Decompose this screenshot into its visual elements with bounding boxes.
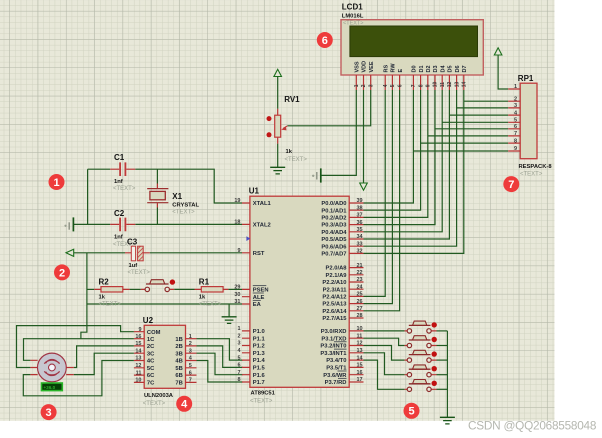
svg-text:39: 39 (357, 198, 363, 204)
svg-text:9: 9 (426, 84, 432, 87)
svg-text:D3: D3 (433, 65, 439, 72)
svg-text:P0.0/AD0: P0.0/AD0 (321, 201, 346, 207)
power terminal (up arrow) near RP1 (494, 48, 502, 55)
wire LCD VSS down-left to power bar (321, 90, 357, 175)
default terminal (left arrow) at RST row (66, 249, 74, 256)
wire RV1 bottom to ground (277, 144, 279, 168)
svg-text:5: 5 (408, 406, 414, 418)
wire vertical net C3row-R2-EA down to 1C row (81, 253, 87, 339)
svg-text:P0.6/AD6: P0.6/AD6 (321, 244, 347, 250)
svg-text:7: 7 (411, 84, 417, 87)
annotation circle 2 (54, 264, 70, 280)
svg-text:37: 37 (357, 213, 363, 219)
svg-text:RESPACK-8: RESPACK-8 (519, 164, 553, 170)
svg-text:1uf: 1uf (129, 263, 138, 269)
svg-text:3C: 3C (147, 351, 155, 357)
default terminal (down arrow) below LCD VDD (360, 183, 368, 190)
svg-text:<TEXT>: <TEXT> (113, 186, 136, 192)
annotation circle 6 (317, 32, 333, 48)
svg-text:16: 16 (135, 334, 141, 340)
svg-text:P1.2: P1.2 (253, 344, 265, 350)
wire C1 to U1 XTAL1 pin19 (135, 169, 242, 203)
svg-text:2: 2 (361, 84, 367, 87)
push button 2 (405, 336, 437, 348)
svg-text:9: 9 (237, 248, 240, 254)
svg-text:D5: D5 (448, 65, 454, 72)
svg-text:11: 11 (136, 370, 142, 376)
wire U2 COM loop to motor centre-left (17, 326, 134, 368)
svg-text:4C: 4C (147, 359, 155, 365)
svg-text:RV1: RV1 (284, 95, 300, 104)
wire U1 P0.5 to LCD D5 column (364, 90, 450, 239)
svg-text:8: 8 (418, 84, 424, 87)
svg-text:10: 10 (357, 326, 363, 332)
svg-text:P2.0/A8: P2.0/A8 (326, 266, 348, 272)
wire button4 to common (437, 374, 448, 376)
svg-text:P1.1: P1.1 (253, 336, 266, 342)
svg-text:3: 3 (237, 341, 240, 347)
svg-text:D7: D7 (462, 65, 468, 72)
resistor R2 (94, 287, 129, 292)
wire U1 P2.4 to LCD RS (364, 90, 386, 296)
wire long EA row (87, 303, 242, 305)
svg-text:1k: 1k (99, 295, 106, 301)
svg-text:6B: 6B (175, 373, 182, 379)
wire button to R1 (174, 288, 194, 290)
svg-text:34: 34 (357, 234, 364, 240)
svg-text:5: 5 (189, 363, 192, 369)
svg-text:36: 36 (357, 220, 363, 226)
stepper motor (30, 353, 73, 382)
svg-text:2C: 2C (147, 344, 155, 350)
wire to R2 left (87, 288, 94, 290)
wire R1 to U1 PSEN pin29 (228, 288, 242, 290)
wire U2 1C row to motor upper-left (24, 339, 134, 361)
wire C1 row + link C1-C2 (88, 169, 111, 224)
svg-text:9: 9 (514, 146, 517, 152)
resistor pack RP1 RESPACK-8 (520, 83, 537, 159)
svg-text:P0.1/AD1: P0.1/AD1 (321, 208, 347, 214)
svg-text:38: 38 (357, 205, 363, 211)
svg-text:ALE: ALE (253, 295, 265, 301)
svg-text:<TEXT>: <TEXT> (128, 270, 151, 276)
LCD pin stubs (356, 75, 464, 90)
svg-text:8: 8 (514, 138, 517, 144)
wire power bar to C2 (73, 223, 110, 225)
svg-text:VDD: VDD (362, 61, 368, 73)
svg-text:6: 6 (237, 363, 240, 369)
svg-text:3: 3 (514, 103, 517, 109)
svg-text:35: 35 (357, 227, 363, 233)
wire U1 P0.2 to LCD D2 column (364, 90, 428, 217)
wire U1 P0.0 to LCD D0 column (364, 90, 414, 203)
svg-text:1: 1 (53, 177, 59, 189)
svg-text:16: 16 (357, 370, 363, 376)
svg-text:3: 3 (46, 407, 52, 419)
wire crystal top to C1 row (156, 169, 158, 183)
wire U1 P3.4 to button5 (364, 360, 405, 389)
svg-text:P1.4: P1.4 (253, 358, 266, 364)
svg-text:27: 27 (357, 306, 363, 312)
svg-text:14: 14 (357, 355, 364, 361)
svg-text:<TEXT>: <TEXT> (520, 172, 543, 178)
svg-text:23: 23 (357, 277, 363, 283)
wire RP1 pin3 to D6 column (457, 107, 509, 109)
svg-text:X1: X1 (172, 192, 182, 201)
svg-text:26: 26 (357, 299, 363, 305)
wire U1 P3.3 to button4 (364, 353, 405, 375)
wire U1 P3.2 to button3 (364, 346, 405, 361)
svg-text:6: 6 (189, 370, 192, 376)
svg-text:33: 33 (357, 241, 363, 247)
svg-text:1B: 1B (175, 337, 182, 343)
svg-text:13: 13 (357, 348, 363, 354)
wire U1 P0.1 to LCD D1 column (364, 90, 421, 210)
svg-text:6C: 6C (147, 373, 155, 379)
svg-text:P3.1/TXD: P3.1/TXD (321, 336, 346, 342)
svg-text:R2: R2 (99, 278, 110, 287)
svg-text:2: 2 (514, 96, 517, 102)
svg-text:LCD1: LCD1 (342, 3, 363, 12)
wire RP1 pin9 to D0 column (413, 150, 508, 152)
wire U1 P3.1 to button2 (364, 338, 405, 345)
svg-text:<TEXT>: <TEXT> (250, 399, 273, 405)
svg-text:32: 32 (357, 249, 363, 255)
power terminal (up arrow) above RV1 (274, 69, 282, 76)
wire RP1 pin1 to power arrow (498, 56, 508, 90)
LCD display LCD1 LM016L (341, 20, 483, 75)
svg-text:P0.4/AD4: P0.4/AD4 (321, 230, 347, 236)
push button 3 (405, 350, 437, 362)
svg-text:5B: 5B (175, 366, 182, 372)
wire U2 3B to U1 P1.6 (197, 353, 243, 375)
wire button2 to common (437, 345, 448, 347)
annotation circle 4 (176, 396, 192, 412)
svg-text:17: 17 (357, 377, 363, 383)
svg-text:E: E (398, 69, 404, 73)
svg-text:12: 12 (135, 363, 141, 369)
svg-text:C1: C1 (114, 153, 125, 162)
svg-text:12: 12 (357, 341, 363, 347)
push button 4 (405, 365, 437, 377)
wire LCD VEE to RV1 wiper (288, 90, 371, 126)
svg-text:R1: R1 (199, 278, 210, 287)
svg-text:10: 10 (433, 82, 439, 88)
stepper motor angle readout (42, 383, 63, 391)
wire RP1 pin4 to D5 column (449, 114, 508, 116)
svg-text:<TEXT>: <TEXT> (99, 302, 122, 308)
svg-text:7: 7 (508, 179, 514, 191)
svg-text:3: 3 (189, 348, 192, 354)
svg-text:D6: D6 (455, 65, 461, 72)
svg-text:21: 21 (357, 263, 363, 269)
svg-text:11: 11 (440, 82, 446, 88)
wire U1 P3.0 to button1 (364, 330, 405, 332)
U1 left pin stubs (242, 203, 250, 382)
capacitor C1 (110, 162, 135, 176)
wire RP1 pin7 to D2 column (428, 135, 508, 137)
wire U1 P2.5 to LCD RW (364, 90, 393, 304)
svg-text:1nf: 1nf (114, 179, 123, 185)
svg-text:<TEXT>: <TEXT> (343, 21, 363, 27)
wire C2 to U1 XTAL2 pin18 (135, 223, 242, 225)
svg-text:5C: 5C (147, 366, 155, 372)
svg-text:12: 12 (447, 82, 453, 88)
svg-text:7C: 7C (147, 381, 155, 387)
ground below RV1 (270, 167, 285, 174)
svg-text:U2: U2 (143, 316, 154, 325)
svg-text:<TEXT>: <TEXT> (143, 401, 166, 407)
svg-text:D1: D1 (419, 65, 425, 72)
svg-text:6: 6 (322, 35, 328, 47)
driver U2 ULN2003A (144, 325, 185, 388)
svg-text:P1.3: P1.3 (253, 351, 266, 357)
U2 right pin stubs (186, 339, 197, 383)
U1 right pin stubs (349, 203, 363, 382)
svg-text:XTAL2: XTAL2 (253, 223, 271, 229)
svg-text:1: 1 (237, 326, 240, 332)
svg-text:1: 1 (354, 84, 360, 87)
svg-text:5: 5 (514, 118, 517, 124)
wire U2 4B to U1 P1.7 (197, 361, 243, 383)
power bar terminal at LCD VSS (320, 168, 322, 182)
reset push button (141, 279, 175, 291)
svg-text:1k: 1k (286, 149, 293, 155)
RP1 pin stubs (508, 89, 520, 151)
svg-text:P2.6/A14: P2.6/A14 (322, 309, 347, 315)
wire EA to ground stem (228, 304, 230, 317)
potentiometer RV1 (267, 109, 288, 144)
svg-text:15: 15 (135, 341, 141, 347)
svg-text:EA: EA (253, 302, 262, 308)
svg-text:P2.7/A15: P2.7/A15 (322, 316, 347, 322)
svg-text:18: 18 (234, 220, 240, 226)
svg-text:D0: D0 (412, 65, 418, 72)
wire U2 1B to U1 P1.4 (197, 339, 243, 360)
push button 5 (405, 380, 437, 392)
svg-text:4: 4 (181, 399, 188, 411)
svg-text:P2.5/A13: P2.5/A13 (322, 302, 347, 308)
svg-text:P1.0: P1.0 (253, 329, 265, 335)
wire U1 P2.6 to LCD E (364, 90, 400, 311)
annotation circle 3 (41, 404, 57, 420)
wire LCD VDD down to arrow terminal (363, 90, 365, 183)
svg-text:P3.5/T1: P3.5/T1 (326, 366, 347, 372)
svg-text:1nf: 1nf (114, 235, 123, 241)
wire U1 P0.7 to LCD D7 column (364, 90, 464, 253)
svg-text:14: 14 (135, 348, 142, 354)
svg-text:30: 30 (234, 292, 240, 298)
svg-text:P0.2/AD2: P0.2/AD2 (321, 216, 346, 222)
wire RP1 pin5 to D4 column (442, 121, 508, 123)
pin marker (blue) at U1 left edge (246, 236, 250, 241)
svg-text:LM016L: LM016L (342, 14, 364, 20)
svg-text:11: 11 (357, 333, 363, 339)
svg-text:P1.6: P1.6 (253, 373, 266, 379)
svg-text:C2: C2 (114, 209, 125, 218)
wire button3 to common (437, 359, 448, 361)
svg-text:P2.1/A9: P2.1/A9 (326, 273, 348, 279)
svg-text:29: 29 (234, 285, 240, 291)
capacitor C2 (110, 218, 135, 232)
svg-text:CSDN @QQ2068558048: CSDN @QQ2068558048 (468, 419, 597, 433)
U2 left pin stubs (134, 332, 144, 383)
svg-text:22: 22 (357, 270, 363, 276)
svg-text:7: 7 (189, 378, 192, 384)
power bar terminal at C2 row (72, 217, 74, 231)
svg-text:RW: RW (391, 63, 397, 73)
resistor R1 (195, 287, 229, 292)
ground at U1 EA (222, 317, 237, 324)
svg-text:6: 6 (397, 84, 403, 87)
svg-text:31: 31 (234, 299, 240, 305)
wire RP1 pin8 to D1 column (421, 142, 509, 144)
svg-text:XTAL1: XTAL1 (253, 201, 272, 207)
svg-text:CRYSTAL: CRYSTAL (172, 203, 199, 209)
svg-text:C3: C3 (127, 238, 138, 247)
wire U2 3C to motor lower-right (74, 353, 134, 374)
svg-text:P3.4/T0: P3.4/T0 (326, 358, 346, 364)
wire C3 to U1 RST pin9 (150, 252, 242, 254)
crystal X1 (147, 184, 168, 208)
svg-text:5: 5 (390, 84, 396, 87)
push button 1 (405, 321, 437, 333)
svg-text:COM: COM (147, 330, 161, 336)
svg-text:AT89C51: AT89C51 (251, 391, 276, 397)
svg-text:1C: 1C (147, 337, 155, 343)
svg-text:P2.4/A12: P2.4/A12 (322, 295, 346, 301)
svg-text:2: 2 (237, 333, 240, 339)
svg-text:P2.3/A11: P2.3/A11 (323, 287, 348, 293)
svg-text:1k: 1k (199, 295, 206, 301)
svg-text:P2.2/A10: P2.2/A10 (322, 280, 346, 286)
svg-text:ULN2003A: ULN2003A (144, 393, 174, 399)
wire U1 P0.4 to LCD D4 column (364, 90, 443, 232)
svg-text:VEE: VEE (369, 61, 375, 72)
annotation circle 5 (404, 403, 420, 419)
svg-text:P3.6/WR: P3.6/WR (323, 373, 347, 379)
svg-text:25: 25 (357, 292, 363, 298)
svg-text:13: 13 (135, 356, 141, 362)
svg-text:3: 3 (368, 84, 374, 87)
svg-text:<TEXT>: <TEXT> (285, 157, 308, 163)
svg-text:+36.0: +36.0 (44, 385, 56, 390)
svg-text:28: 28 (357, 313, 363, 319)
svg-text:2: 2 (59, 267, 65, 279)
svg-text:RST: RST (253, 251, 265, 257)
svg-text:7: 7 (237, 370, 240, 376)
svg-text:15: 15 (357, 363, 363, 369)
svg-text:8: 8 (237, 377, 240, 383)
svg-text:PSEN: PSEN (253, 288, 269, 294)
wire U1 P0.6 to LCD D6 column (364, 90, 457, 246)
svg-text:10: 10 (135, 378, 141, 384)
svg-text:7: 7 (514, 131, 517, 137)
wire button5 to common (437, 388, 448, 390)
svg-text:6: 6 (514, 124, 517, 130)
svg-text:P0.3/AD3: P0.3/AD3 (321, 223, 347, 229)
svg-text:D4: D4 (440, 65, 446, 73)
svg-text:RS: RS (383, 65, 389, 73)
svg-text:P0.7/AD7: P0.7/AD7 (321, 252, 346, 258)
svg-text:2B: 2B (175, 344, 182, 350)
svg-text:4B: 4B (175, 359, 182, 365)
svg-text:2: 2 (189, 341, 192, 347)
svg-text:VSS: VSS (355, 61, 361, 72)
svg-text:P0.5/AD5: P0.5/AD5 (321, 237, 347, 243)
annotation circle 1 (49, 174, 65, 190)
svg-text:P3.3/INT1: P3.3/INT1 (320, 351, 347, 357)
wire RP1 pin2 to D7 column (464, 100, 508, 102)
annotation circle 7 (503, 176, 519, 192)
svg-text:P1.7: P1.7 (253, 380, 265, 386)
wire R2 to button (130, 288, 141, 290)
svg-text:9: 9 (138, 327, 141, 333)
svg-text:4: 4 (383, 84, 389, 87)
svg-text:<TEXT>: <TEXT> (199, 302, 222, 308)
svg-text:U1: U1 (249, 187, 260, 196)
svg-text:P3.0/RXD: P3.0/RXD (321, 329, 347, 335)
svg-text:P1.5: P1.5 (253, 366, 266, 372)
svg-text:1: 1 (189, 334, 192, 340)
svg-text:3B: 3B (175, 351, 182, 357)
svg-text:RP1: RP1 (518, 74, 534, 83)
wire crystal bottom to C2 row (156, 208, 158, 225)
microcontroller U1 AT89C51 (250, 196, 349, 387)
wire U2 2B to U1 P1.5 (197, 346, 243, 368)
svg-text:P3.7/RD: P3.7/RD (325, 380, 347, 386)
wire power arrow to RV1 top (277, 77, 279, 109)
wire terminal arrow to C3 (74, 252, 125, 254)
wire button1 to common (437, 330, 448, 332)
wire U2 4C bottom loop to motor lower-left (23, 361, 134, 396)
wire buttons common down to ground (446, 331, 448, 417)
svg-text:D2: D2 (426, 65, 432, 72)
wire U1 P0.3 to LCD D3 column (364, 90, 436, 225)
svg-text:P3.2/INT0: P3.2/INT0 (320, 344, 346, 350)
svg-text:7B: 7B (175, 381, 182, 387)
wire U2 2C to motor centre-right (74, 346, 134, 368)
svg-text:5: 5 (237, 355, 240, 361)
svg-text:13: 13 (454, 82, 460, 88)
svg-text:24: 24 (357, 284, 364, 290)
svg-text:19: 19 (234, 198, 240, 204)
svg-text:<TEXT>: <TEXT> (172, 210, 195, 216)
svg-text:1: 1 (514, 84, 517, 90)
svg-text:14: 14 (462, 82, 468, 88)
wire RP1 pin6 to D3 column (435, 128, 508, 130)
ground below buttons (440, 417, 455, 424)
